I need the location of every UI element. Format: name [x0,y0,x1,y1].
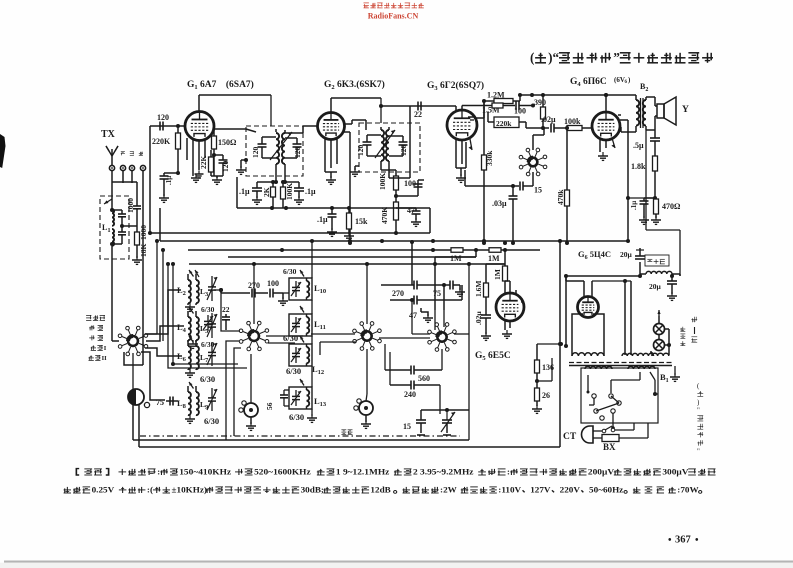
voltage selector [587,372,641,430]
IF transformer 2 shield box [359,123,420,172]
oscillator coils L8 L9 [177,382,217,415]
wire divider tap [537,358,552,381]
svg-text:15k: 15k [355,217,368,226]
ground at IF2 box [350,166,360,176]
ground under L4 [188,340,198,348]
svg-text:TX: TX [101,129,116,140]
red watermark line 2 [368,12,419,21]
tuning capacitor variable [421,408,469,435]
svg-text::110V: :110V [498,485,522,494]
capacitor 240 [390,352,440,414]
label 6/30 row4 [204,416,219,426]
label zhishideng [680,327,685,346]
wire IF1 to G2 grid [296,126,318,133]
ground under L8 [185,415,195,423]
svg-text:)“: )“ [548,50,559,65]
capacitor 75 osc [433,281,465,299]
bus wire y233 [148,208,430,235]
capacitor .02u to G4 [526,115,566,133]
padder trimmer left [239,401,258,431]
resistor 470k [556,126,570,245]
resistor 330k [482,101,495,245]
svg-text:": " [697,407,700,415]
label 6/30 row3 [200,374,215,384]
svg-text:.03μ: .03μ [492,199,507,208]
svg-text:470k: 470k [556,189,565,205]
rectifier G6 5Ts4C [578,297,599,318]
resistor 1.6M [474,264,505,315]
ground at IF1 box [236,158,248,174]
output transformer B2 [621,82,655,132]
power switch [593,423,634,433]
B1 primary winding left [585,366,612,369]
svg-text:1 9~12.1MHz: 1 9~12.1MHz [336,467,390,476]
svg-text:470K: 470K [380,207,389,224]
svg-text:6/30: 6/30 [283,267,297,276]
label G1 6A7 (6SA7) [187,79,254,91]
svg-text:CT: CT [563,432,577,442]
svg-text::: : [157,467,160,476]
svg-text::2W: :2W [440,485,457,494]
trimmer 6/30 row2 [201,340,215,349]
IF2 capacitor 120 right [389,136,408,156]
svg-text:2 3.95~9.2MHz: 2 3.95~9.2MHz [413,467,474,476]
junction to voltage divider [537,342,563,346]
G5 target leads [516,290,524,302]
bottom wire y440 [133,410,469,440]
capacitor .1u G1 cathode [160,171,181,196]
bus wire y257 [228,256,476,258]
wire osc vertical 435 [435,264,444,310]
label qi-tu [691,317,697,342]
input terminals [109,165,145,183]
IF1 tuning arrow [270,132,292,160]
svg-text:0.25V: 0.25V [92,485,115,494]
label shuanglian [341,430,352,435]
band switch S4 [428,323,457,352]
capacitor 270 lower [390,285,462,305]
resistor 136 [535,344,555,388]
ground under L6 [185,369,195,377]
capacitor 22 row1 [222,305,230,330]
svg-text:2K: 2K [262,187,271,197]
capacitor 100 bypass [394,179,424,198]
svg-text:50~60Hz: 50~60Hz [589,485,623,494]
svg-text:22: 22 [414,110,422,119]
svg-text:100K: 100K [378,173,387,190]
band switch S3 [353,322,382,351]
bus wire y250 [188,248,540,252]
svg-text:390: 390 [534,98,546,107]
svg-text:75: 75 [156,398,164,407]
IF1 secondary winding [282,130,296,182]
resistor 100K AVC [281,180,295,208]
svg-text:G4 6П6C: G4 6П6C [570,77,607,88]
right margin vertical title [697,382,703,456]
wire L10 riser [310,239,314,278]
svg-text:220k: 220k [496,119,512,128]
antenna coil L1 box [100,196,129,259]
IF1 primary winding [214,129,279,182]
ground under G1 [191,174,201,182]
IF1 capacitor 120 right [285,138,302,158]
capacitor 1000 upper [112,182,141,214]
wire S1 wrap [166,262,247,368]
svg-text:(6V: (6V [614,76,625,84]
wire L1 to band switch [112,259,119,341]
resistor 1M right [488,248,501,263]
capacitor .1u output [630,198,655,224]
antenna coil L1 windings [104,171,114,259]
svg-text:270: 270 [392,289,404,298]
ground under .1u [159,194,169,202]
transformer core [569,363,672,366]
tube G1 6A7 [185,112,214,141]
svg-text:6/30: 6/30 [286,366,301,376]
svg-text:•: • [668,535,672,546]
G4 top lead [604,93,608,112]
G3 cathode leads [456,139,466,168]
bus wire y276 [564,274,640,348]
svg-text:270: 270 [248,281,260,290]
capacitor 15 padder [403,410,426,435]
tube G2 6K3 [318,113,345,140]
svg-text:22: 22 [222,305,230,314]
ground under G3 [456,168,466,182]
svg-text:300μV: 300μV [662,467,689,476]
svg-text:75: 75 [433,289,441,298]
wire G2 down to bus [343,132,352,245]
svg-text:560: 560 [418,374,430,383]
svg-text:100k: 100k [564,117,581,126]
ground under G2 [326,172,336,184]
antenna coil L10 [289,270,326,300]
description line 2 [64,485,702,494]
svg-text:26: 26 [542,391,550,400]
capacitor 20u filter 1 [635,248,645,278]
resistor 26 [535,388,551,406]
wire S2 to padder [250,354,252,403]
bus wire y241 [160,208,630,243]
right boundary vertical [558,240,562,447]
IF2 primary winding [381,127,384,170]
label 6/30 L10 [283,267,297,276]
terminal tiny labels [121,152,143,156]
label G2 6K3 (6SK7) [324,79,385,91]
wire grid cap 22 to G3 [381,106,456,178]
power transformer B1 primary box [581,368,669,423]
svg-text:Y: Y [682,105,689,115]
label G5 6E5C [475,351,511,362]
ground under 18K [132,256,142,264]
G3 top cap lead [455,106,457,111]
resistor 1.8k [631,156,658,200]
svg-text:20μ: 20μ [620,250,633,259]
ground under L2 [185,303,195,311]
wire G2 plate to IF2 [344,120,366,130]
capacitor at L13 [280,390,289,406]
svg-text:15: 15 [534,186,542,195]
resistor 100K under IF2 [378,170,399,202]
G1 top cap lead [199,95,271,112]
svg-text:200μV: 200μV [588,467,615,476]
svg-text:47: 47 [409,311,417,320]
HT winding [622,353,654,356]
wires right coil bank [307,300,317,422]
filter choke [640,271,680,276]
resistor 100k G4 grid [564,117,592,131]
IF1 capacitor 120 left [251,137,276,158]
phono jack [128,389,150,408]
B1 primary winding right [628,366,655,369]
left edge scan mark [0,134,6,168]
G1 heater leads [187,138,205,176]
capacitor .5u [633,130,660,156]
svg-text:1M: 1M [450,254,462,263]
bottom wire y448 [139,446,560,448]
CT mains plug [563,426,593,443]
svg-text:.1μ: .1μ [165,176,173,185]
wire choke to B2 [646,130,680,276]
svg-text:1M: 1M [493,269,502,280]
IF transformer 1 shield box [246,126,303,176]
svg-text:470Ω: 470Ω [662,202,681,211]
G2 cathode leads [325,139,337,172]
G5 cathode to ground [502,320,512,338]
svg-text:G5 6E5C: G5 6E5C [475,351,511,362]
choke label box [645,255,669,266]
filament winding G6 [572,353,604,356]
L1 padding capacitors [110,208,126,246]
svg-text:1.6M: 1.6M [474,281,483,297]
wires S3 [311,262,430,401]
svg-text:520~1600KHz: 520~1600KHz [254,467,311,476]
HT winding lead [625,281,631,355]
capacitor .03u tone [492,186,518,243]
antenna coil L12 [289,336,324,376]
svg-text:6/30: 6/30 [200,374,215,384]
label G6 5Ts4C [578,249,633,261]
svg-text:127V: 127V [530,485,551,494]
svg-text:240: 240 [404,390,416,399]
wire G5 grid [435,241,515,264]
resistor 150R [212,127,238,176]
svg-text::70W: :70W [677,485,699,494]
red watermark line 1 [364,3,424,8]
bus wire y208 [237,177,430,210]
svg-text:1.8k: 1.8k [631,162,646,171]
capacitor 22 grid [414,102,422,120]
svg-text:220K: 220K [152,137,171,146]
page bottom edge shadow [0,561,793,568]
description line 1 [76,467,715,476]
page number 367 [668,535,699,547]
lamp wires [650,310,671,356]
svg-text:•: • [695,535,699,546]
wires S4 [410,262,471,410]
potentiometer 220k volume [488,112,526,128]
resistor 470K under IF2 [380,202,399,235]
svg-text:150Ω: 150Ω [218,138,237,147]
svg-text:30dB;: 30dB; [301,485,325,494]
svg-text:.5μ: .5μ [633,141,644,150]
wire G3 plate [474,99,486,118]
trimmer 6/30 row1 [201,305,215,331]
capacitor 75 row4 [156,397,178,408]
gang dashed link [140,435,460,437]
wire fb junction [626,196,655,200]
IF2 tuning arrow [375,130,395,158]
tube G4 6P6C [592,112,620,140]
wire bundle S1 risers [145,239,238,366]
resistor 470R [651,199,681,224]
svg-text:220V: 220V [560,485,581,494]
svg-text:56: 56 [265,402,274,410]
resistor 22K [199,150,214,176]
wire IF1 primary to B+ [270,95,272,126]
svg-text:”: ” [613,50,620,65]
G4 cathode leads [598,139,608,160]
capacitor .02u detector [474,311,491,341]
svg-text:120: 120 [356,145,365,157]
capacitor 47 bypass [396,206,421,226]
G4 heater arrow [611,138,615,148]
svg-text:.1μ: .1μ [630,201,638,210]
svg-text:.02μ: .02μ [541,115,556,124]
tube G3 6G2 [447,110,477,140]
core ground [670,366,680,381]
capacitors 270 100 to L10 [214,279,289,305]
ground under divider [532,405,542,413]
svg-text:±10KHz): ±10KHz) [172,485,208,494]
wire G4 plate to B2 [618,114,621,116]
IF2 capacitor 120 left [356,135,381,156]
wires S2 right [252,262,303,343]
title (苏)波罗底克 six-tube four-band [530,50,713,65]
svg-text:": " [697,448,700,456]
svg-text:100: 100 [267,279,279,288]
G2 top cap lead [331,98,381,113]
top B+ bus right [520,93,633,97]
antenna coil L11 [289,306,326,336]
label 56 [265,402,274,410]
label 6/30 L13 [289,412,304,422]
resistor 390 [534,93,608,128]
resistor 1.5M [462,103,503,115]
label G4 6P6C (6V6) [570,76,631,88]
lamp winding [652,353,669,356]
capacitor 15 tone [465,170,542,195]
wire to G1 grid [150,124,185,233]
resistor 1M vertical [493,250,508,293]
svg-text::(: :( [147,485,153,494]
IF2 secondary winding [386,127,389,175]
wires S2 left [219,288,241,440]
padder trimmer right [354,399,373,429]
resistor 2K AVC [262,180,278,208]
capacitor 100 coupling [503,101,535,116]
svg-text:BX: BX [603,442,616,452]
resistor 1.2M [484,91,522,104]
resistor 18K [135,214,149,258]
oscillator coils L4 L5 [177,307,217,342]
pickup input wire [142,183,144,365]
loudspeaker Y [655,97,689,130]
tube G5 6E5C [496,293,524,321]
G3 heater arrow [469,139,473,150]
G3 diode plates [468,117,474,120]
svg-text:150~410KHz: 150~410KHz [179,467,231,476]
wire screen feedback [620,120,628,241]
wire IF2 primary to B+ [379,98,383,123]
svg-text::: : [507,467,510,476]
svg-text:6/30: 6/30 [201,305,215,314]
capacitor 1000 lower [120,224,148,240]
capacitor 120 cathode [212,153,230,176]
ground under 22K [195,170,224,184]
G6 filament box [572,314,604,355]
capacitor 270 osc [381,281,446,299]
band switch S2 [239,321,269,351]
svg-text:.1μ: .1μ [239,187,250,196]
svg-text:15: 15 [403,422,411,431]
indicator lamp 2 [654,340,665,351]
capacitor .1u on bus [317,206,337,236]
svg-text:100K: 100K [285,183,294,200]
svg-text:G1 6A7 (6SA7): G1 6A7 (6SA7) [187,79,254,91]
oscillator coils L6 L7 [177,336,217,370]
capacitor 560 [385,344,442,383]
fuse BX [593,423,648,452]
band switch S1 [118,326,148,356]
wire G5 top [505,281,510,293]
label 6/30 L12 [286,366,301,376]
G6 anode leads [566,276,631,296]
svg-text:RadioFans.CN: RadioFans.CN [368,12,419,21]
phono wires [133,353,139,447]
tone switch wafer [519,148,547,176]
svg-text:(: ( [530,50,534,65]
resistor 220K [152,126,181,173]
svg-text:6/30: 6/30 [283,333,298,343]
indicator lamp 1 [654,324,665,335]
band switch position labels [86,315,107,362]
label G3 6G2 (6SQ7) [427,80,484,92]
capacitor 20u filter 2 [649,274,677,300]
svg-text:367: 367 [675,535,691,546]
label 6/30 L11 [283,333,298,343]
wire tone switch up [533,128,544,150]
capacitor .1u under IF1 right [283,180,316,204]
svg-text:II: II [102,355,108,362]
svg-text:6/30: 6/30 [289,412,304,422]
B1 right edge wire [650,372,658,396]
capacitor 120 at G1 grid [157,113,169,131]
resistor 15k on bus [344,206,368,240]
svg-text:.1μ: .1μ [305,187,316,196]
resistor 1M left [450,248,463,263]
antenna TX [101,129,118,166]
bus wire y264 [189,262,505,266]
svg-text:20μ: 20μ [649,282,662,291]
svg-text:120: 120 [251,147,260,159]
svg-text:1M: 1M [488,254,500,263]
capacitor .1u under IF1 left [239,182,276,204]
capacitor 47 osc ground [409,308,433,322]
svg-text:12dB: 12dB [370,485,391,494]
antenna coil L13 [289,379,327,409]
svg-text:6/30: 6/30 [204,416,219,426]
